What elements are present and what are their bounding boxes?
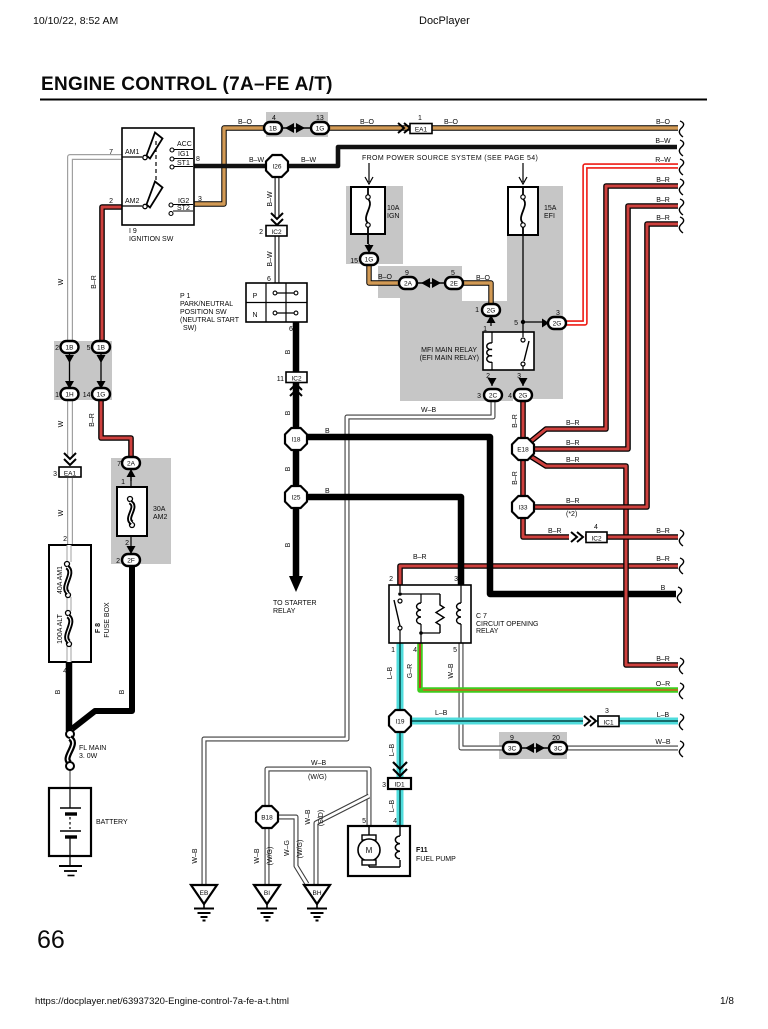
svg-text:I19: I19	[395, 719, 404, 726]
svg-text:(EFI MAIN RELAY): (EFI MAIN RELAY)	[420, 355, 479, 362]
svg-text:3: 3	[477, 393, 481, 400]
gray bg connector 1B/1G top pair	[266, 112, 328, 137]
svg-text:2A: 2A	[404, 281, 413, 288]
svg-text:L–B: L–B	[387, 666, 394, 679]
svg-text:2G: 2G	[553, 321, 562, 328]
svg-text:(W/G): (W/G)	[267, 847, 274, 866]
svg-text:9: 9	[405, 270, 409, 277]
svg-text:3. 0W: 3. 0W	[79, 753, 98, 760]
arrow down into 1G(15)	[368, 244, 370, 253]
octagon I18	[285, 428, 307, 450]
svg-text:B: B	[325, 488, 330, 495]
svg-text:B: B	[285, 349, 292, 354]
title underline	[40, 99, 707, 101]
ignition switch ST2 contact	[169, 212, 173, 216]
svg-text:11: 11	[277, 376, 284, 383]
svg-text:W–B: W–B	[421, 407, 437, 414]
svg-text:2: 2	[259, 229, 263, 236]
svg-text:B–R: B–R	[566, 498, 580, 505]
svg-text:B–R: B–R	[91, 275, 98, 289]
svg-text:3C: 3C	[508, 746, 517, 753]
svg-text:EA1: EA1	[415, 127, 428, 134]
box IC2 top	[266, 226, 287, 237]
battery plates	[69, 788, 71, 808]
svg-text:4: 4	[594, 524, 598, 531]
ignition switch AM2 contact	[122, 205, 142, 207]
svg-text:ST1: ST1	[177, 160, 190, 167]
P1 contact P row	[273, 291, 277, 295]
ignition switch dashed link	[155, 141, 157, 182]
junction dot EFI fuse node	[521, 320, 525, 324]
wire W-B B18 to fuel pump pin5	[267, 769, 369, 826]
arrow up into 2G(1)	[490, 315, 492, 326]
svg-text:B–W: B–W	[249, 157, 265, 164]
svg-text:B: B	[285, 466, 292, 471]
svg-text:B–O: B–O	[360, 119, 375, 126]
C7 coil right	[460, 585, 462, 643]
svg-text:L–B: L–B	[435, 710, 448, 717]
svg-text:5: 5	[451, 270, 455, 277]
svg-text:3: 3	[198, 196, 202, 203]
oval 2G(1)	[482, 304, 500, 316]
svg-text:1/8: 1/8	[720, 996, 734, 1007]
svg-text:ACC: ACC	[177, 141, 192, 148]
svg-text:AM1: AM1	[125, 149, 140, 156]
fuse 40A AM1	[65, 562, 70, 567]
svg-text:15A: 15A	[544, 205, 557, 212]
svg-text:MFI MAIN RELAY: MFI MAIN RELAY	[421, 347, 477, 354]
ignition switch ST1 contact	[170, 165, 174, 169]
svg-text:B–R: B–R	[656, 556, 670, 563]
battery box	[49, 788, 91, 856]
wire B-R E18 branch1 to right edge top	[530, 186, 678, 442]
wire B-R I33 right up to right edge	[534, 224, 678, 507]
svg-text:W–B: W–B	[311, 760, 327, 767]
svg-text:B–O: B–O	[378, 274, 393, 281]
wire B-O 1G(15) to 2A/2E to 2G(1)	[369, 264, 491, 305]
box IC2 mid	[286, 372, 307, 383]
wire thin battery feed	[69, 770, 71, 788]
svg-text:W–B: W–B	[192, 848, 199, 864]
svg-text:W: W	[58, 420, 65, 427]
wire B-R E18 to I33	[520, 460, 526, 497]
svg-text:I33: I33	[518, 505, 527, 512]
svg-text:B: B	[325, 428, 330, 435]
svg-text:W–B: W–B	[305, 809, 312, 825]
svg-text:4: 4	[63, 668, 67, 675]
oval 1H	[61, 388, 79, 400]
svg-text:B–R: B–R	[512, 471, 519, 485]
svg-text:M: M	[366, 846, 373, 855]
oval 1B top	[264, 122, 282, 134]
box IC2 right	[586, 532, 607, 543]
svg-text:5: 5	[87, 345, 91, 352]
box EA1 top	[410, 124, 432, 134]
svg-text:1: 1	[418, 115, 422, 122]
gray bg 2A/2E row strip	[378, 266, 462, 298]
svg-text:B–R: B–R	[89, 413, 96, 427]
svg-text:BATTERY: BATTERY	[96, 819, 128, 826]
svg-text:C 7: C 7	[476, 613, 487, 620]
svg-text:1: 1	[483, 326, 487, 333]
svg-text:FUEL PUMP: FUEL PUMP	[416, 856, 456, 863]
svg-text:1G: 1G	[97, 392, 106, 399]
oval 3C right	[549, 742, 567, 754]
chevron arrow down into ID1	[393, 762, 407, 776]
svg-text:I18: I18	[291, 437, 300, 444]
svg-text:7: 7	[117, 461, 121, 468]
svg-text:66: 66	[37, 926, 65, 954]
svg-text:B: B	[55, 689, 62, 694]
svg-text:40A AM1: 40A AM1	[57, 566, 64, 594]
oval 2E	[445, 277, 463, 289]
arrow down into 2F	[130, 546, 132, 554]
wire W ignition AM1 to fuse box (hollow white wire)	[70, 157, 122, 545]
fuse 10A IGN box	[351, 187, 385, 234]
wire B-R E18 branch3 down to right edge	[530, 456, 678, 665]
ignition switch AM1 contact	[122, 156, 142, 158]
chevron arrow right into IC2 right	[571, 532, 583, 542]
arrows between 1B/1H pair	[69, 352, 71, 389]
gray bg MFI main relay right	[462, 301, 513, 401]
svg-text:IC1: IC1	[603, 720, 614, 727]
svg-text:PARK/NEUTRAL: PARK/NEUTRAL	[180, 301, 233, 308]
svg-text:1: 1	[121, 479, 125, 486]
ground triangle BI	[254, 885, 280, 904]
svg-text:30A: 30A	[153, 506, 166, 513]
svg-text:(S/D): (S/D)	[318, 810, 325, 826]
chevron arrow up below IC2 mid	[290, 384, 302, 396]
oval 2G(3)	[548, 317, 566, 329]
MFI main relay box	[483, 332, 534, 370]
svg-text:1: 1	[475, 307, 479, 314]
svg-text:IG1: IG1	[178, 151, 189, 158]
junction circle FL MAIN bottom	[66, 762, 74, 770]
svg-text:https://docplayer.net/63937320: https://docplayer.net/63937320-Engine-co…	[35, 996, 289, 1007]
svg-text:5: 5	[362, 818, 366, 825]
oval 1G mid	[92, 388, 110, 400]
octagon B18	[256, 806, 278, 828]
svg-text:B: B	[661, 585, 666, 592]
wire W-B circuit opening relay pin5 to 3C to right edge	[461, 643, 678, 748]
oval 1B left pair	[61, 341, 79, 353]
svg-text:1: 1	[391, 647, 395, 654]
svg-text:L–B: L–B	[389, 743, 396, 756]
svg-text:B–W: B–W	[267, 251, 274, 267]
svg-text:B–R: B–R	[413, 554, 427, 561]
svg-text:B–R: B–R	[656, 528, 670, 535]
svg-text:B–R: B–R	[548, 528, 562, 535]
arrow from power source into 15A EFI	[519, 163, 527, 184]
svg-text:3: 3	[454, 576, 458, 583]
wire B 2F to junction	[72, 565, 132, 729]
svg-text:B–W: B–W	[301, 157, 317, 164]
svg-text:BH: BH	[312, 890, 321, 897]
svg-text:R–W: R–W	[655, 157, 671, 164]
svg-text:2A: 2A	[127, 461, 136, 468]
svg-text:B: B	[285, 542, 292, 547]
svg-text:10A: 10A	[387, 205, 400, 212]
svg-text:(*2): (*2)	[566, 511, 577, 518]
MFI relay switch	[522, 332, 524, 337]
svg-text:6: 6	[267, 276, 271, 283]
svg-text:8: 8	[196, 156, 200, 163]
svg-text:(W/G): (W/G)	[297, 840, 304, 859]
svg-text:1B: 1B	[97, 345, 105, 352]
svg-text:3: 3	[605, 708, 609, 715]
svg-text:EA1: EA1	[64, 471, 77, 478]
MFI relay coil	[491, 332, 493, 370]
P1 park/neutral position switch box	[246, 283, 307, 322]
svg-text:CIRCUIT OPENING: CIRCUIT OPENING	[476, 621, 539, 628]
svg-text:I 9: I 9	[129, 228, 137, 235]
gray bg 2A / 30A AM2 fuse / 2F	[111, 458, 171, 564]
wire B-R 1G(14) to 2A	[101, 400, 131, 457]
wire L-B I19 right to IC1 and right edge	[410, 718, 678, 725]
oval 2C	[484, 389, 502, 401]
svg-text:2: 2	[125, 540, 129, 547]
svg-text:4: 4	[272, 115, 276, 122]
svg-text:N: N	[252, 312, 257, 319]
svg-text:1H: 1H	[65, 392, 74, 399]
svg-text:(W/G): (W/G)	[308, 774, 327, 781]
gray bg connector 1B-1H / 1B-1G pair	[54, 341, 112, 400]
svg-text:ENGINE CONTROL (7A–FE A/T): ENGINE CONTROL (7A–FE A/T)	[41, 74, 333, 95]
battery ground symbol	[69, 856, 71, 866]
wire B-R I33 down to IC2 and right edge	[523, 518, 678, 537]
wire B I18 right and down to right edge	[306, 437, 676, 594]
wire B-W ST1 through I26 to right edge	[194, 147, 677, 166]
svg-text:E18: E18	[517, 447, 529, 454]
fuse 15A EFI box	[508, 187, 538, 235]
svg-text:2: 2	[116, 558, 120, 565]
fusible link FL MAIN	[68, 738, 73, 763]
wire B I25 right and down to relay pin3	[306, 497, 461, 585]
svg-text:W–B: W–B	[448, 663, 455, 679]
oval 1B right pair	[92, 341, 110, 353]
svg-text:F11: F11	[416, 847, 428, 854]
gray bg 15A EFI column	[507, 186, 563, 399]
svg-text:10/10/22, 8:52 AM: 10/10/22, 8:52 AM	[33, 15, 118, 27]
wire thin relay contact 5 to 2G(3)	[523, 321, 542, 323]
svg-text:B–R: B–R	[512, 414, 519, 428]
svg-text:B: B	[285, 410, 292, 415]
svg-text:2C: 2C	[489, 393, 498, 400]
junction circle FL MAIN top	[66, 730, 74, 738]
svg-text:5: 5	[514, 320, 518, 327]
arrow to starter relay	[289, 572, 303, 592]
gray bg 10A IGN fuse	[346, 186, 403, 264]
arrow down into 2G(4)	[522, 378, 524, 386]
svg-text:SW): SW)	[183, 325, 197, 332]
octagon I19	[389, 710, 411, 732]
box IC1	[598, 716, 619, 727]
ignition switch I9 box	[122, 128, 194, 225]
arrow up into 2A	[130, 469, 132, 481]
svg-text:2G: 2G	[519, 393, 528, 400]
svg-text:TO STARTER: TO STARTER	[273, 600, 317, 607]
wire B P1 to IC2 to I18 to I25 to starter relay arrow	[293, 322, 300, 580]
svg-text:IGNITION SW: IGNITION SW	[129, 236, 174, 243]
svg-text:B–R: B–R	[656, 656, 670, 663]
svg-text:L–B: L–B	[657, 712, 670, 719]
svg-text:L–B: L–B	[389, 799, 396, 812]
oval 1G top	[311, 122, 329, 134]
svg-text:BI: BI	[264, 890, 270, 897]
svg-text:13: 13	[316, 115, 324, 122]
chevron arrow down into EA1 left	[64, 453, 76, 465]
svg-text:6: 6	[289, 326, 293, 333]
svg-text:AM2: AM2	[125, 198, 140, 205]
octagon I33	[512, 496, 534, 518]
svg-text:2G: 2G	[487, 308, 496, 315]
connector pair arrows 2A-2E	[415, 282, 448, 284]
svg-text:4: 4	[393, 818, 397, 825]
wire L-B I19 down through ID1 to fuel pump pin4	[397, 731, 404, 826]
svg-text:P 1: P 1	[180, 293, 190, 300]
svg-text:RELAY: RELAY	[273, 608, 296, 615]
arrow from power source into 10A IGN	[365, 163, 373, 184]
svg-text:9: 9	[510, 735, 514, 742]
svg-text:14: 14	[83, 392, 91, 399]
chevron arrow right into IC1	[584, 716, 596, 726]
C7 coil left	[400, 594, 440, 643]
svg-text:IC2: IC2	[291, 376, 302, 383]
svg-text:1B: 1B	[66, 345, 74, 352]
wire thin EFI fuse down to relay contact	[522, 235, 524, 339]
svg-text:ST2: ST2	[177, 205, 190, 212]
svg-text:1G: 1G	[365, 257, 374, 264]
C7 resistor	[436, 594, 444, 633]
box EA1 left	[59, 467, 81, 477]
right edge squiggles	[677, 121, 683, 757]
svg-text:B–O: B–O	[238, 119, 253, 126]
svg-text:100A ALT: 100A ALT	[57, 613, 64, 644]
ground triangle EB	[191, 885, 217, 904]
svg-text:1B: 1B	[269, 126, 277, 133]
svg-text:4: 4	[508, 393, 512, 400]
svg-text:W: W	[58, 509, 65, 516]
wire W-B B18 to ground BI	[265, 827, 270, 885]
svg-text:AM2: AM2	[153, 514, 168, 521]
svg-text:FROM POWER SOURCE SYSTEM (SEE: FROM POWER SOURCE SYSTEM (SEE PAGE 54)	[362, 155, 538, 162]
svg-text:3: 3	[517, 373, 521, 380]
svg-text:EB: EB	[200, 890, 209, 897]
svg-text:B–R: B–R	[656, 197, 670, 204]
svg-text:B–R: B–R	[566, 457, 580, 464]
wire B fuse box F8 to junction	[66, 662, 73, 731]
svg-text:B: B	[119, 689, 126, 694]
svg-text:P: P	[253, 293, 258, 300]
ignition switch IG2 contact	[169, 203, 173, 207]
svg-text:2: 2	[63, 536, 67, 543]
C7 switch	[399, 585, 401, 592]
connector pair arrows 1B-1G top	[280, 127, 310, 129]
connector pair arrows 3C-3C	[520, 747, 550, 749]
svg-text:W–B: W–B	[254, 848, 261, 864]
svg-text:B–R: B–R	[656, 177, 670, 184]
wire B-R relay C7 pin2 to right edge	[400, 566, 678, 585]
fuse 100A ALT	[66, 611, 71, 616]
svg-text:3: 3	[382, 782, 386, 789]
wire B-W hollow I26 down through IC2 to P1	[275, 177, 280, 283]
svg-text:B–O: B–O	[656, 119, 671, 126]
wire B-R ignition AM2 to 1B(5)	[102, 207, 122, 341]
chevron arrow into EA1 top	[398, 123, 410, 133]
svg-text:2: 2	[486, 373, 490, 380]
svg-text:IC2: IC2	[271, 229, 282, 236]
svg-text:2: 2	[55, 345, 59, 352]
arrow right into 2G(3)	[542, 319, 549, 328]
fuse box F8	[49, 545, 91, 662]
svg-text:ID1: ID1	[394, 782, 405, 789]
svg-text:FUSE BOX: FUSE BOX	[104, 602, 111, 638]
svg-text:7: 7	[109, 149, 113, 156]
svg-text:3C: 3C	[554, 746, 563, 753]
circuit opening relay C7 box	[389, 585, 471, 643]
fuse 30A AM2 box	[117, 487, 147, 536]
svg-text:3: 3	[556, 310, 560, 317]
svg-text:15: 15	[350, 258, 358, 265]
oval 2A mid	[399, 277, 417, 289]
wire W-B junction to ground BH	[316, 796, 369, 885]
svg-text:2E: 2E	[450, 281, 459, 288]
svg-text:B–R: B–R	[566, 420, 580, 427]
svg-text:B–R: B–R	[566, 440, 580, 447]
svg-text:2: 2	[109, 198, 113, 205]
box ID1	[388, 778, 411, 789]
octagon I26	[266, 155, 288, 177]
svg-text:IC2: IC2	[591, 536, 602, 543]
wire W-G B18 to ground BH	[277, 817, 307, 884]
svg-text:(NEUTRAL START: (NEUTRAL START	[180, 317, 240, 324]
octagon I25	[285, 486, 307, 508]
wire B-R E18 branch2 to right edge	[535, 206, 678, 449]
oval 2G(4)	[514, 389, 532, 401]
svg-text:5: 5	[453, 647, 457, 654]
svg-text:1: 1	[55, 392, 59, 399]
svg-text:B–W: B–W	[267, 191, 274, 207]
svg-text:IG2: IG2	[178, 198, 189, 205]
svg-text:2F: 2F	[127, 558, 135, 565]
svg-text:2: 2	[389, 576, 393, 583]
svg-text:G–R: G–R	[407, 664, 414, 678]
ground triangle BH	[304, 885, 330, 904]
svg-text:B–W: B–W	[655, 138, 671, 145]
oval 3C left	[503, 742, 521, 754]
svg-text:FL MAIN: FL MAIN	[79, 745, 106, 752]
arrow down into 2C	[491, 378, 493, 386]
svg-text:POSITION SW: POSITION SW	[180, 309, 227, 316]
wire B-R 2G(4) to E18	[520, 400, 526, 438]
oval 2A left	[122, 457, 140, 469]
svg-text:B18: B18	[261, 815, 273, 822]
svg-text:EFI: EFI	[544, 213, 555, 220]
chevron arrow down into IC2 top	[271, 213, 283, 225]
svg-text:W–B: W–B	[655, 739, 671, 746]
wire B-O ignition IG2 up to 1B/1G and EA1 to right edge	[194, 128, 678, 204]
fuel pump motor M	[368, 826, 370, 835]
oval 1G(15)	[360, 253, 378, 265]
fuel pump P11 box	[348, 826, 410, 876]
ignition switch ACC contact	[170, 148, 174, 152]
P1 contact N row	[273, 311, 277, 315]
oval 2F	[122, 554, 140, 566]
octagon E18	[512, 438, 534, 460]
svg-text:W: W	[58, 278, 65, 285]
svg-text:20: 20	[552, 735, 560, 742]
gray bg 3C pair	[499, 732, 567, 759]
